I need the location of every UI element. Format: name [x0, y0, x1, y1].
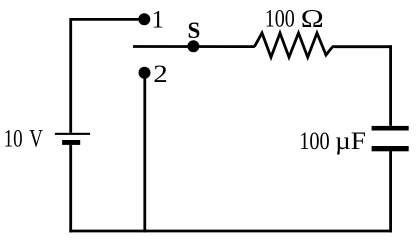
- wire: right vertical lower (capacitor down to bottom wire): [389, 151, 392, 232]
- node contact 1: [138, 13, 150, 25]
- switch S pivot junction: [187, 40, 199, 52]
- svg-text:2: 2: [153, 61, 168, 88]
- battery negative short plate: [62, 140, 80, 145]
- svg-text:10: 10: [4, 126, 23, 153]
- svg-text:100: 100: [299, 128, 330, 155]
- svg-text:100: 100: [265, 5, 295, 32]
- wire: top-left horizontal (battery + to contact 1): [71, 18, 141, 21]
- svg-text:S: S: [188, 18, 201, 43]
- wire: left vertical (top corner down to battery): [69, 18, 72, 133]
- resistor R 100 ohm zigzag: [255, 33, 333, 57]
- wire: bottom horizontal: [69, 230, 392, 233]
- battery positive long plate: [55, 133, 90, 135]
- svg-text:µF: µF: [335, 128, 366, 155]
- wire: contact 2 down to bottom wire: [143, 73, 146, 233]
- node contact 2: [139, 67, 151, 79]
- switch S arm: [133, 45, 255, 48]
- svg-text:1: 1: [152, 6, 165, 33]
- svg-text:Ω: Ω: [301, 6, 324, 33]
- wire: resistor to top-right corner: [332, 45, 392, 48]
- svg-text:V: V: [29, 126, 43, 153]
- wire: battery negative down to bottom wire: [69, 145, 72, 233]
- wire: right vertical upper (corner down to capacitor): [389, 45, 392, 126]
- capacitor C top plate: [372, 126, 409, 131]
- capacitor C bottom plate: [372, 146, 409, 151]
